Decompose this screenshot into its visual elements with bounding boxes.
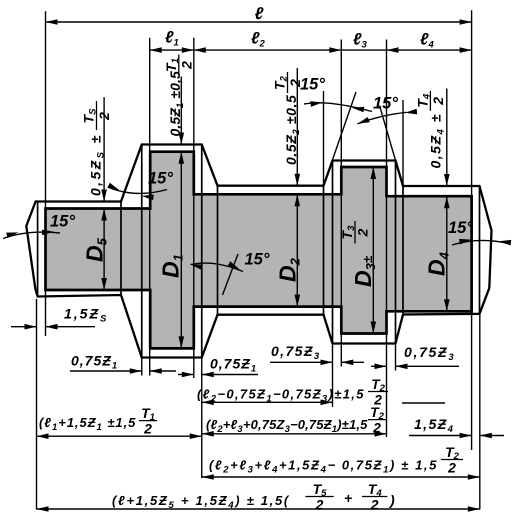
- junction D5/D1 taper small side: [120, 202, 122, 296]
- dimension line (l2+l3+0,75Z3-0,75Z1): [202, 433, 387, 435]
- svg-text:0,75Ƶ1: 0,75Ƶ1: [71, 353, 118, 372]
- dim l2 arrows: [194, 47, 206, 53]
- angle side line near D1/D2 chamfer: [223, 254, 239, 295]
- extension blank D1 right below: [201, 358, 203, 479]
- dim l arrows: [46, 19, 58, 25]
- extension blank D3 right corner below: [395, 344, 397, 371]
- fraction T3/2: [339, 221, 371, 244]
- fraction T2/2: [272, 72, 304, 93]
- 0,75Z3 left arrows: [321, 360, 333, 366]
- svg-text:): ): [388, 492, 395, 508]
- svg-text:0,5Ƶ2 ±0,5: 0,5Ƶ2 ±0,5: [283, 95, 302, 165]
- svg-text:15°: 15°: [50, 213, 75, 231]
- row5 arrows: [37, 433, 49, 439]
- dimension line D5 vertical: [103, 209, 105, 291]
- arc D3 right 15: [358, 112, 407, 124]
- extension line l3 right / l4 left: [386, 40, 388, 438]
- junction left end: [37, 202, 39, 297]
- rotated label D4: [424, 251, 452, 276]
- dimension line 0,5Z2 vertical: [296, 68, 298, 186]
- rotated label 0,5Z2 +-0,5 T2/2: [283, 95, 302, 165]
- 0,5Zs pair: [101, 190, 107, 202]
- extension line l1 right / l2 left: [193, 38, 195, 378]
- svg-text:2: 2: [143, 421, 152, 437]
- svg-text:15°: 15°: [148, 170, 173, 188]
- 0,75Z1 left arrows: [130, 368, 142, 374]
- svg-text:ℓ1: ℓ1: [165, 29, 179, 49]
- arc D1/D2 15: [191, 263, 244, 271]
- chamfer extension D3 right (15 deg): [380, 106, 404, 187]
- row9 arrows: [37, 506, 49, 512]
- fraction Ts/2: [81, 101, 113, 130]
- svg-text:15°: 15°: [373, 95, 398, 113]
- svg-text:0,75Ƶ1: 0,75Ƶ1: [210, 356, 257, 375]
- svg-text:ℓ2: ℓ2: [251, 30, 266, 50]
- fraction T1/2: [163, 55, 195, 76]
- dimension line 0,75Z3 right: [371, 365, 387, 367]
- junction blank D1 right: [201, 145, 203, 358]
- junction blank D4 left: [402, 186, 404, 315]
- dimension line 0,75Z3 left: [270, 361, 333, 363]
- dimension line 0,75Z1 left: [70, 370, 142, 372]
- svg-text:ℓ4: ℓ4: [420, 31, 435, 51]
- dim l4 arrows: [387, 47, 399, 53]
- extension blank D3 left corner below: [332, 344, 334, 408]
- svg-text:2: 2: [447, 460, 456, 476]
- extension line part left face / l dim: [45, 11, 47, 336]
- extension line part D4 right face / l dim: [471, 10, 473, 450]
- 0,5Z2 pair: [295, 174, 301, 186]
- rotated label D3 +-: [350, 255, 378, 287]
- extension line blank left face: [36, 299, 38, 510]
- dimension line l2: [194, 49, 341, 51]
- arc left end 15: [3, 232, 60, 238]
- extension blank D1 left below: [141, 358, 143, 376]
- rotated label D1: [158, 254, 186, 278]
- dimension line l: [46, 21, 472, 23]
- arc D1 left 15: [108, 187, 167, 193]
- dimension line 0,75Z1 right: [178, 374, 194, 376]
- 0,75Z1 right arrows: [182, 372, 194, 378]
- extension blank D2 right corner above (angle annotation): [323, 91, 325, 186]
- dimension line l4: [387, 49, 472, 51]
- extension blank right face below: [479, 314, 481, 510]
- svg-text:+: +: [344, 490, 352, 506]
- rotated label D2: [275, 257, 303, 282]
- part (machined detail) gray silhouette: [46, 152, 472, 349]
- part outline: [46, 152, 472, 349]
- D2 bottom: [295, 295, 301, 307]
- 0,5Z1 pair: [179, 133, 185, 145]
- extension line l1 left: [149, 38, 151, 376]
- svg-text:2: 2: [287, 79, 303, 88]
- svg-text:ℓ: ℓ: [255, 4, 264, 23]
- 1,5Z4 arrows: [460, 433, 472, 439]
- svg-text:2: 2: [430, 97, 446, 106]
- junction verticals of blank (edge circles): [38, 145, 480, 358]
- svg-text:0,5Ƶ4 ±: 0,5Ƶ4 ±: [428, 113, 447, 168]
- D4 bottom: [444, 299, 450, 311]
- dimension line 0,5Z1 vertical: [180, 77, 182, 145]
- dim l1 arrows: [150, 47, 162, 53]
- junction right end: [479, 186, 481, 314]
- junction blank D3 left: [332, 161, 334, 344]
- arc arrowheads: [6, 230, 19, 238]
- arc right end 15: [452, 240, 510, 245]
- junction blank D2 right: [323, 186, 325, 315]
- dimension line l1: [150, 49, 194, 51]
- svg-text:0,75Ƶ3: 0,75Ƶ3: [404, 344, 455, 363]
- svg-text:2: 2: [355, 228, 371, 237]
- 0,5Z4 pair: [444, 174, 450, 186]
- svg-text:15°: 15°: [448, 219, 473, 237]
- fraction T4/2: [414, 91, 446, 111]
- dimension line l3: [341, 49, 386, 51]
- dimension line D4 vertical: [446, 196, 448, 311]
- shelf line right of 0,75Z3: [402, 402, 445, 404]
- svg-text:15°: 15°: [245, 251, 270, 269]
- D5 bottom: [101, 278, 107, 290]
- rotated label 0,5Z1 +-0,5 T1/2: [167, 71, 186, 136]
- blank (workpiece) outline: [26, 145, 491, 358]
- dimension line (l1+1,5Z1...): [37, 435, 202, 437]
- svg-text:0,5Ƶ1 ±0,5: 0,5Ƶ1 ±0,5: [167, 71, 186, 136]
- dimension line (l2+l3+l4+1,5Z4-0,75Z1): [202, 476, 480, 478]
- svg-text:(ℓ1+1,5Ƶ1 ±1,5: (ℓ1+1,5Ƶ1 ±1,5: [39, 415, 136, 433]
- rotated label 0,5Zs +- Ts/2: [88, 133, 107, 196]
- svg-text:2: 2: [372, 420, 381, 436]
- dimension line 0,5Zs vertical: [103, 97, 105, 201]
- 0,75Z3 right arrows: [375, 364, 387, 370]
- dimension line (l2-0,75Z1-0,75Z3): [202, 401, 333, 403]
- svg-text:1,5Ƶ4: 1,5Ƶ4: [414, 416, 454, 435]
- dimension line (l+1,5Z5+1,5Z4): [37, 508, 480, 510]
- svg-text:2: 2: [178, 61, 194, 70]
- angle arcs: [3, 103, 510, 272]
- dimension line 0,5Z4 vertical: [446, 89, 448, 187]
- dimension line 1,5Z4: [409, 435, 472, 437]
- row6 arrows: [202, 431, 214, 437]
- dimension line D2 vertical: [296, 194, 298, 306]
- svg-text:1,5ƵS: 1,5ƵS: [64, 306, 108, 325]
- junction blank D1 left: [141, 145, 143, 358]
- svg-text:15°: 15°: [300, 76, 325, 94]
- junction blank D3 right: [395, 161, 397, 344]
- dimension line D3 vertical: [372, 167, 374, 334]
- svg-text:ℓ3: ℓ3: [353, 31, 368, 51]
- row4 arrows: [202, 400, 214, 406]
- row8 arrows: [202, 474, 214, 480]
- svg-text:(ℓ2+ℓ3+0,75Z3−0,75Ƶ1)±1,5: (ℓ2+ℓ3+0,75Z3−0,75Ƶ1)±1,5: [206, 417, 368, 435]
- 1,5Zs arrows: [25, 324, 37, 330]
- rotated label 0,5Z4 +- T4/2: [428, 113, 447, 168]
- rotated label D5: [82, 237, 110, 262]
- junction blank D2 left: [217, 186, 219, 315]
- arc D3 left 15: [304, 103, 372, 112]
- D1 bottom: [179, 336, 185, 348]
- svg-text:(ℓ2+ℓ3+ℓ4+1,5Ƶ4− 0,75Ƶ1) ± 1,5: (ℓ2+ℓ3+ℓ4+1,5Ƶ4− 0,75Ƶ1) ± 1,5: [209, 458, 438, 476]
- extension blank D4 left corner above (angle annotation): [402, 100, 404, 186]
- dimension line 1,5Zs: [11, 326, 37, 328]
- D3 both: [371, 167, 377, 179]
- extension line l2 right / l3 left: [340, 40, 342, 367]
- svg-text:2: 2: [370, 497, 379, 513]
- svg-text:0,75Ƶ3: 0,75Ƶ3: [271, 343, 321, 362]
- svg-text:2: 2: [96, 112, 112, 121]
- svg-text:2: 2: [315, 497, 324, 513]
- dimension line D1 vertical: [180, 152, 182, 349]
- chamfer extension D3 left (15 deg): [324, 92, 357, 186]
